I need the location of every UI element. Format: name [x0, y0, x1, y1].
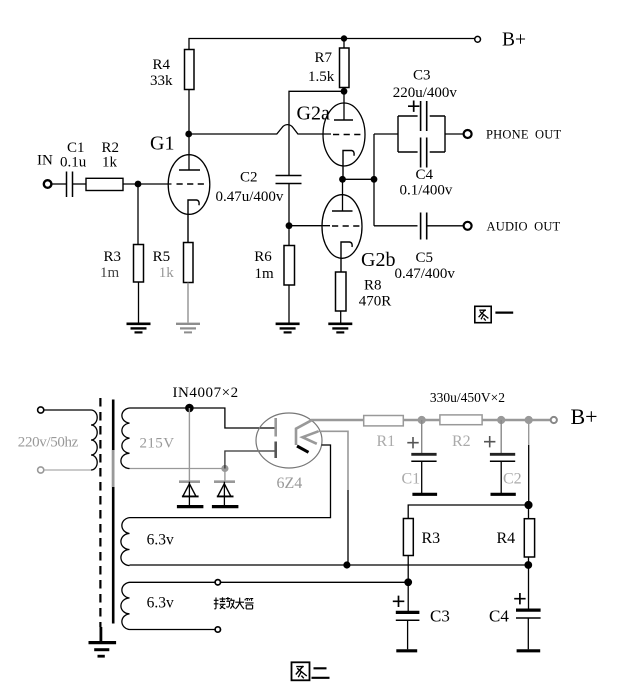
svg-text:C2: C2 — [503, 471, 522, 488]
diode D1 lead bottom — [188, 482, 190, 506]
svg-text:R3: R3 — [422, 530, 441, 547]
capacitor C1 — [67, 172, 73, 198]
resistor R3 fig2 — [403, 519, 413, 556]
wire G1 plate to G2a grid with hop — [189, 125, 331, 134]
tube 6Z4 plate2 bar — [274, 442, 277, 459]
transformer 215V winding — [121, 408, 130, 469]
terminal primary bottom gray — [38, 467, 44, 473]
tube G2a grid — [333, 134, 361, 136]
diode D2 ground bar — [212, 505, 239, 508]
svg-text:IN4007×2: IN4007×2 — [173, 385, 239, 401]
resistor R3 — [134, 245, 144, 283]
wire C2 to R6 and G2b grid junction — [288, 184, 290, 246]
wire to phone box — [374, 133, 398, 135]
node heater return — [343, 561, 350, 568]
tube G2a plate — [334, 119, 353, 121]
plus sign C1 fig2 — [407, 437, 418, 448]
svg-text:0.1u: 0.1u — [60, 155, 87, 171]
svg-text:1k: 1k — [102, 155, 118, 171]
tube G2a cathode — [343, 151, 354, 180]
node R7 bottom — [341, 88, 348, 95]
wire 215V bottom gray — [130, 468, 225, 470]
node R3 bottom — [404, 578, 412, 586]
capacitor C3 fig2 bottom lead — [407, 620, 409, 649]
svg-text:330u/450V×2: 330u/450V×2 — [430, 390, 505, 405]
resistor R6 — [284, 246, 295, 286]
wire junction to G2b grid — [289, 225, 330, 227]
resistor R4 — [185, 50, 195, 90]
svg-text:C3: C3 — [430, 607, 450, 626]
node C2 top gray — [497, 416, 505, 424]
svg-text:G2a: G2a — [297, 103, 330, 125]
transformer core gray segment — [112, 450, 115, 487]
svg-text:C4: C4 — [489, 607, 509, 626]
svg-text:PHONE OUT: PHONE OUT — [486, 128, 561, 142]
transformer 6.3v winding 1 — [121, 518, 130, 566]
capacitor C2 fig2 lead — [500, 420, 502, 454]
diode D2 cathode bar gray — [214, 480, 235, 483]
wire B+ branch down black part — [528, 445, 530, 505]
wire R7 top lead — [343, 39, 345, 49]
label fig2 caption 图二 — [292, 662, 330, 680]
svg-text:C2: C2 — [240, 170, 258, 186]
wire 215V top — [130, 408, 275, 428]
node plate G1 junction — [185, 131, 192, 138]
svg-text:C4: C4 — [416, 167, 434, 183]
transformer primary winding — [91, 410, 97, 470]
tube 6Z4 plate1 bar — [274, 418, 277, 437]
tube G1 plate — [179, 169, 200, 171]
wire 6.3v-2 bottom — [130, 629, 216, 631]
node R3 R4 top — [524, 501, 532, 509]
wire R3 bottom lead — [407, 556, 409, 612]
tube G2b grid — [332, 225, 360, 227]
svg-text:R1: R1 — [377, 433, 396, 450]
node IN4007 junction — [185, 404, 194, 413]
svg-text:470R: 470R — [359, 294, 392, 310]
wire primary bottom gray — [44, 469, 91, 471]
svg-text:B+: B+ — [571, 404, 598, 429]
diode D1 ground bar — [177, 505, 204, 508]
wire R1 to R2 gray — [403, 419, 440, 422]
ground R8 — [328, 322, 352, 325]
svg-text:1.5k: 1.5k — [308, 69, 335, 85]
diode D1 cathode bar gray — [179, 480, 200, 483]
capacitor C1 fig2 plates — [411, 453, 436, 456]
terminal PHONE OUT — [464, 130, 472, 138]
wire B+ rail top — [189, 39, 475, 51]
svg-text:0.47u/400v: 0.47u/400v — [216, 189, 284, 205]
label 接放大管 — [214, 597, 254, 609]
wire C1 to R2 — [73, 183, 87, 185]
terminal IN — [44, 180, 52, 188]
wire R7 junction left and down to C2 — [289, 91, 344, 175]
svg-text:B+: B+ — [502, 30, 526, 51]
terminal AUDIO OUT — [464, 222, 472, 230]
resistor R7 — [340, 48, 350, 88]
transformer core dashed — [99, 398, 101, 627]
svg-text:215V: 215V — [140, 436, 175, 452]
diode D2 lead gray — [224, 469, 226, 482]
capacitor C3 fig2 plates — [396, 611, 420, 614]
wire R7 bottom to G2a plate — [343, 88, 345, 120]
transformer core solid — [112, 400, 115, 624]
svg-text:R4: R4 — [497, 530, 516, 547]
svg-text:0.1/400v: 0.1/400v — [400, 182, 453, 198]
capacitor C4 plates — [421, 138, 427, 168]
terminal B+ fig1 — [475, 36, 481, 42]
terminal 6.3v-2 bottom — [215, 627, 220, 632]
terminal B+ fig2 — [551, 417, 557, 423]
wire R3 R4 top link — [408, 505, 528, 519]
wire plate2 lead — [225, 451, 275, 469]
transformer 6.3v winding 2 — [121, 582, 130, 629]
svg-text:G1: G1 — [150, 133, 174, 155]
ground R6 — [276, 322, 300, 325]
wire chevron output gray — [318, 431, 348, 490]
wire chevron output black part — [347, 490, 349, 565]
capacitor C2 — [276, 176, 302, 184]
tube G2b envelope — [322, 195, 362, 259]
ground transformer — [100, 627, 103, 642]
node C1 top gray — [418, 416, 426, 424]
wire cathode junction to output junction — [343, 178, 375, 180]
wire primary top — [44, 409, 91, 411]
diode D2 lead bottom — [223, 482, 225, 506]
svg-text:220v/50hz: 220v/50hz — [18, 435, 79, 451]
wire R4 bottom to G1 plate — [188, 90, 190, 171]
wire IN to C1 — [52, 183, 66, 185]
wire R2 to G1 grid — [123, 183, 172, 185]
terminal primary top — [38, 407, 44, 413]
svg-text:R8: R8 — [364, 278, 382, 294]
node G2a cathode junction — [339, 176, 346, 183]
capacitor C1 fig2 lead — [421, 420, 423, 454]
capacitor C3 fig2 bottom bar — [396, 649, 417, 652]
resistor R2 gray — [440, 415, 482, 425]
svg-text:R2: R2 — [452, 433, 471, 450]
tube G2a envelope — [323, 103, 365, 166]
svg-text:1k: 1k — [159, 265, 175, 281]
svg-text:R5: R5 — [153, 249, 171, 265]
wire R4 leads — [528, 505, 530, 610]
capacitor C2 fig2 bottom bar — [491, 493, 516, 496]
terminal 6.3v-2 top — [215, 580, 220, 585]
capacitor C4 fig2 plates — [516, 608, 541, 611]
tube 6Z4 cathode gray — [296, 420, 312, 445]
node R4 bottom — [524, 561, 532, 569]
resistor R2 — [86, 178, 123, 190]
svg-text:1m: 1m — [255, 266, 275, 282]
svg-text:AUDIO OUT: AUDIO OUT — [487, 219, 561, 233]
ground R5 gray — [176, 323, 200, 325]
wire B+ branch down gray part — [528, 420, 530, 445]
svg-text:6.3v: 6.3v — [147, 595, 174, 612]
tube G2b cathode — [341, 242, 352, 272]
capacitor C3 plates — [421, 101, 427, 131]
capacitor C1 fig2 bottom bar — [412, 493, 437, 496]
capacitor C1 fig2 bottom lead — [421, 461, 423, 493]
svg-text:R7: R7 — [315, 50, 333, 66]
svg-text:G2b: G2b — [361, 249, 395, 271]
diode D2 base bar — [217, 495, 234, 497]
wire R2 to B+ gray — [482, 419, 551, 422]
node R7 top — [341, 35, 347, 41]
B+ rail gray — [311, 419, 364, 422]
wire box to phone terminal — [445, 133, 463, 135]
tube 6Z4 heater tick — [297, 446, 309, 452]
svg-text:C5: C5 — [416, 250, 434, 266]
svg-text:R6: R6 — [254, 249, 272, 265]
diode D2 triangle — [218, 484, 231, 496]
tube G2b plate — [332, 210, 353, 212]
node diode2 junction gray — [221, 465, 228, 472]
wire R3 to ground — [138, 282, 140, 323]
label fig1 caption 图一 — [475, 306, 513, 322]
plus sign C3 — [408, 101, 419, 112]
wire output vertical — [373, 134, 375, 226]
C3 C4 parallel box — [398, 116, 445, 152]
node B+ branch gray — [525, 416, 533, 424]
wire 6.3v-2 top — [130, 581, 216, 583]
tube 6Z4 envelope — [256, 413, 322, 468]
resistor R1 gray — [364, 416, 404, 426]
svg-text:0.47/400v: 0.47/400v — [395, 266, 456, 282]
resistor R5 — [184, 243, 194, 283]
capacitor C4 fig2 bottom lead — [527, 618, 529, 649]
capacitor C2 fig2 plates — [490, 453, 515, 456]
svg-text:C1: C1 — [402, 471, 421, 488]
svg-text:220u/400v: 220u/400v — [393, 85, 458, 101]
capacitor C5 — [421, 213, 427, 240]
node output junction — [371, 176, 378, 183]
node C2 junction — [286, 222, 293, 229]
svg-text:33k: 33k — [150, 73, 173, 89]
tube G1 cathode — [188, 200, 199, 243]
svg-text:6.3v: 6.3v — [147, 531, 174, 548]
diode D1 base bar — [182, 495, 199, 497]
wire junction down to R3 — [137, 184, 139, 245]
svg-text:R4: R4 — [153, 57, 171, 73]
wire R8 to ground — [340, 311, 342, 323]
plus sign C3 fig2 — [393, 596, 405, 607]
node input junction — [135, 181, 142, 188]
tube G1 envelope — [168, 155, 210, 215]
svg-text:6Z4: 6Z4 — [277, 475, 303, 492]
wire audio out — [374, 225, 418, 227]
svg-text:IN: IN — [37, 153, 53, 169]
plus sign C2 fig2 — [484, 436, 495, 447]
resistor R8 — [336, 272, 347, 311]
diode D1 triangle — [183, 484, 196, 496]
tube G1 grid — [177, 183, 207, 185]
plus sign C4 fig2 — [514, 593, 525, 604]
wire C5 to audio terminal — [427, 225, 463, 227]
wire R6 to ground — [288, 285, 290, 323]
svg-text:1m: 1m — [100, 265, 120, 281]
wire 6Z4 heater to 6.3v winding — [130, 445, 331, 518]
resistor R4 fig2 — [524, 519, 534, 557]
wire R5 to ground — [187, 283, 189, 323]
capacitor C2 fig2 bottom lead — [500, 461, 502, 493]
svg-text:R3: R3 — [104, 249, 122, 265]
svg-text:C3: C3 — [413, 68, 431, 84]
capacitor C4 fig2 bottom bar — [517, 649, 541, 652]
tube 6Z4 chevron gray — [303, 431, 319, 444]
tube G2b plate lead — [342, 179, 344, 211]
ground R3 — [127, 322, 151, 325]
wire 6.3v-1 bottom — [130, 564, 529, 566]
wire 6.3v-2 top to R3 — [221, 581, 408, 583]
diode D1 lead gray — [188, 408, 190, 482]
